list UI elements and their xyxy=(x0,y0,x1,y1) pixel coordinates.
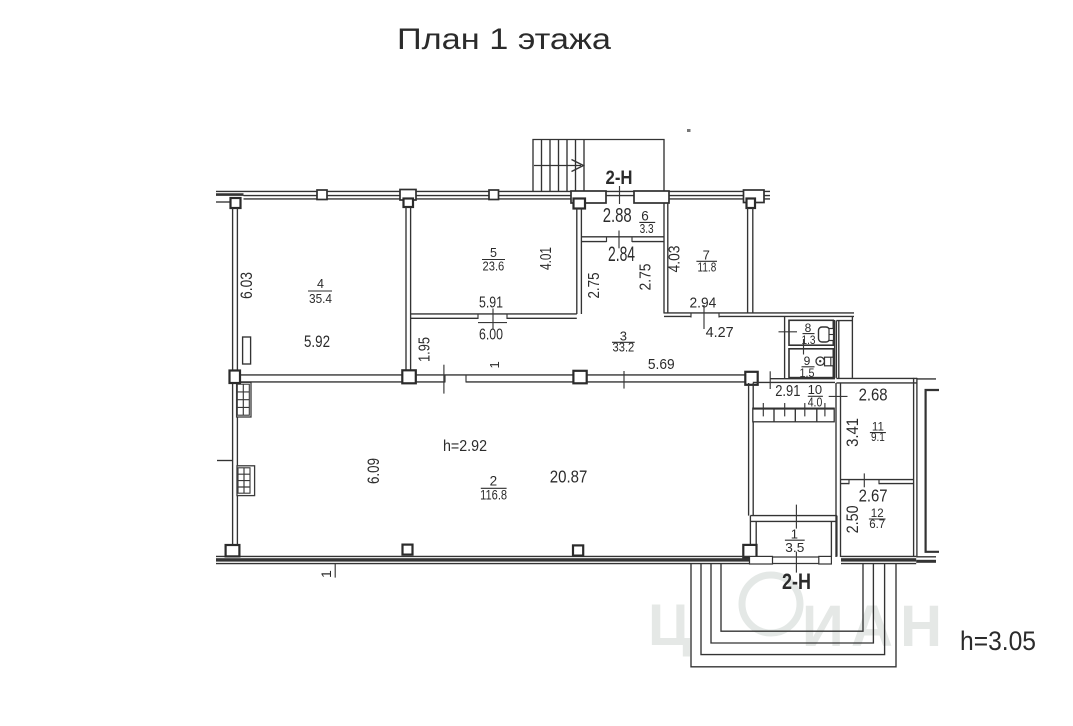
svg-text:3.41: 3.41 xyxy=(844,418,862,447)
wall between rooms 11 and 12 xyxy=(841,480,914,484)
wall joint square room 1 west xyxy=(743,545,756,558)
rooms 8/9 east wall xyxy=(835,320,839,378)
svg-text:5.91: 5.91 xyxy=(479,295,503,312)
svg-text:3.3: 3.3 xyxy=(640,222,654,236)
band column square 3 xyxy=(489,190,499,200)
room 1 box xyxy=(750,516,837,557)
svg-text:Ц: Ц xyxy=(648,593,690,658)
speck mark xyxy=(687,129,691,132)
svg-text:6.7: 6.7 xyxy=(869,519,885,531)
south wall band west segment xyxy=(216,556,750,563)
rooms 11/12 door jambs xyxy=(849,480,879,485)
svg-text:2.67: 2.67 xyxy=(859,486,888,506)
room 4 label xyxy=(308,277,332,306)
band column square 1 xyxy=(317,190,327,200)
svg-text:1: 1 xyxy=(318,570,334,578)
room 9 label xyxy=(800,354,815,380)
dimension ticks xyxy=(619,186,621,204)
wall joint square SW corner xyxy=(226,545,240,556)
big room 2 north wall xyxy=(240,375,746,382)
corridor 10 west wall xyxy=(749,383,754,516)
svg-text:35.4: 35.4 xyxy=(309,291,332,306)
corridor 10 north wall xyxy=(753,379,835,383)
svg-text:116.8: 116.8 xyxy=(480,487,507,502)
room 5 door jambs and threshold xyxy=(478,314,507,323)
svg-text:2-Н: 2-Н xyxy=(606,168,633,189)
room 8 label xyxy=(802,321,816,347)
svg-text:3.5: 3.5 xyxy=(785,540,804,555)
room 6 label xyxy=(639,209,655,236)
wall joint square on band x573 xyxy=(573,545,583,555)
svg-text:2-Н: 2-Н xyxy=(782,569,811,594)
staircase treads xyxy=(542,140,585,192)
svg-text:9: 9 xyxy=(804,354,811,368)
staircase box xyxy=(533,140,664,192)
band column square 2 xyxy=(400,190,416,201)
wall joint square NW corner xyxy=(231,198,241,208)
room 2 label xyxy=(480,473,507,502)
svg-text:ИАН: ИАН xyxy=(802,594,942,659)
svg-text:20.87: 20.87 xyxy=(550,467,588,487)
room 7 label xyxy=(696,247,717,274)
wall between room 5 and vestibule xyxy=(577,209,582,315)
svg-text:4: 4 xyxy=(317,277,324,291)
svg-text:2.91: 2.91 xyxy=(775,383,800,400)
wall joint square W x230 xyxy=(230,371,241,384)
wall joint square below band x575 xyxy=(574,199,586,209)
svg-text:1: 1 xyxy=(487,361,502,368)
svg-text:23.6: 23.6 xyxy=(483,258,505,273)
svg-text:33.2: 33.2 xyxy=(613,339,635,354)
hatched shaft block 2 xyxy=(237,466,255,496)
svg-text:6.03: 6.03 xyxy=(237,272,256,299)
rooms 8/9 west outer wall xyxy=(784,316,786,378)
svg-text:1.95: 1.95 xyxy=(417,337,434,362)
svg-text:2.94: 2.94 xyxy=(690,294,717,311)
room 8 dim tick xyxy=(779,331,798,333)
svg-text:h=2.92: h=2.92 xyxy=(443,438,487,455)
west wall stub xyxy=(217,460,232,462)
svg-text:4.01: 4.01 xyxy=(538,247,555,270)
east step walls xyxy=(836,316,852,378)
svg-text:2.68: 2.68 xyxy=(859,384,888,404)
radiator room 4 xyxy=(243,337,251,364)
room 7 east wall xyxy=(748,208,753,314)
svg-text:2: 2 xyxy=(490,473,498,488)
room 7 west wall xyxy=(664,203,668,314)
svg-text:2.75: 2.75 xyxy=(638,263,655,290)
watermark logo circle xyxy=(742,575,800,633)
svg-text:5.92: 5.92 xyxy=(304,332,330,351)
wall joint square below band x405 xyxy=(404,199,414,208)
corridor 10 east wall / rooms 11-12 west wall xyxy=(836,383,841,557)
room 5 south wall with door xyxy=(411,314,577,318)
vestibule north wall block east xyxy=(634,191,669,203)
corridor radiator strip xyxy=(753,403,834,422)
svg-text:5.69: 5.69 xyxy=(648,356,675,373)
svg-text:2.84: 2.84 xyxy=(608,243,635,266)
svg-text:6.00: 6.00 xyxy=(479,327,503,344)
vestibule door jambs xyxy=(607,237,633,242)
vestibule south wall with door xyxy=(581,237,663,242)
room 9 dim tick xyxy=(803,339,805,355)
rooms 11-12 north wall xyxy=(836,378,936,383)
room 12 label xyxy=(869,508,886,531)
room 5 label xyxy=(482,246,505,273)
svg-text:2.50: 2.50 xyxy=(844,505,862,533)
wall joint square below band NE xyxy=(747,199,756,209)
svg-text:11.8: 11.8 xyxy=(698,260,717,275)
watermark letters xyxy=(648,593,942,659)
svg-text:9.1: 9.1 xyxy=(871,432,885,444)
toilet room 8 xyxy=(819,327,834,342)
entrance threshold boxes xyxy=(750,556,832,564)
rooms 6-7-8-9 south wall run xyxy=(664,313,854,317)
room 9 box xyxy=(789,349,833,378)
hatched shaft block 1 xyxy=(237,382,251,417)
room 7 door jambs xyxy=(691,313,719,318)
room 10 label xyxy=(808,382,823,409)
wall between rooms 4 and 5 xyxy=(406,207,411,372)
vestibule north wall block west xyxy=(571,191,606,203)
west exterior wall xyxy=(233,208,238,546)
svg-text:2.88: 2.88 xyxy=(603,205,632,227)
svg-text:План 1 этажа: План 1 этажа xyxy=(397,23,611,56)
band column square NE xyxy=(744,190,765,203)
svg-text:4.03: 4.03 xyxy=(667,245,684,272)
svg-text:4.27: 4.27 xyxy=(706,324,734,341)
svg-text:h=3.05: h=3.05 xyxy=(960,626,1036,656)
east loggia bracket xyxy=(926,390,939,552)
south wall band east segment xyxy=(841,556,916,563)
room 2 north wall door jambs xyxy=(445,375,466,383)
staircase direction arrow xyxy=(534,160,584,172)
north window band lines xyxy=(216,191,770,202)
wall joint square x745 xyxy=(745,372,757,385)
sink room 9 xyxy=(816,357,833,366)
entrance stairs nest xyxy=(691,564,896,667)
svg-text:4.0: 4.0 xyxy=(808,395,823,409)
wall joint square on band x402 xyxy=(403,545,413,555)
svg-text:6.09: 6.09 xyxy=(364,458,383,484)
room 3 label xyxy=(612,328,635,354)
svg-text:8: 8 xyxy=(805,321,812,335)
room 1 label xyxy=(785,526,805,555)
wall joint square x573 xyxy=(573,371,586,384)
wall joint square x402 xyxy=(402,370,416,383)
east exterior wall xyxy=(914,378,917,557)
room 8 box xyxy=(789,320,833,345)
south band stub east xyxy=(916,557,936,563)
svg-text:2.75: 2.75 xyxy=(586,272,603,298)
room 11 label xyxy=(870,422,886,444)
